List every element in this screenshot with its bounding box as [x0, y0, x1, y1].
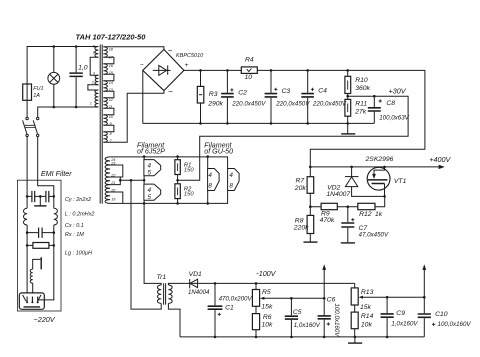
svg-text:C2: C2: [238, 90, 247, 97]
svg-text:C8: C8: [386, 100, 395, 107]
svg-text:R8: R8: [295, 217, 304, 224]
svg-text:R6: R6: [263, 314, 272, 321]
capacitor C5: [285, 316, 298, 319]
svg-text:22: 22: [110, 174, 116, 178]
arrow bias output 1: [322, 264, 326, 270]
resistor R10: [345, 76, 351, 93]
wire -100V bottom return rail: [180, 336, 424, 338]
resistor R7: [307, 177, 314, 194]
svg-text:100,0x160V: 100,0x160V: [438, 321, 472, 328]
svg-text:4: 4: [148, 162, 152, 169]
junction dots filament midpoint wire: [119, 179, 122, 182]
arrow +400V: [439, 165, 445, 169]
resistor R11: [345, 99, 351, 116]
svg-text:VD1: VD1: [189, 271, 202, 278]
svg-text:21: 21: [110, 181, 115, 185]
resistor Rx: [33, 243, 49, 249]
diode VD1 1N4004: [190, 279, 198, 287]
svg-text:2: 2: [91, 81, 95, 85]
bridge rectifier VD KBPC5010: [143, 49, 184, 90]
svg-text:12: 12: [109, 98, 114, 102]
wire pin 18 to bridge ~ top: [103, 47, 163, 50]
svg-text:+: +: [185, 62, 189, 69]
svg-text:100,0x160V: 100,0x160V: [333, 303, 340, 337]
svg-text:1: 1: [90, 101, 92, 105]
fuse FU1: [23, 84, 32, 100]
svg-text:2SK2996: 2SK2996: [365, 156, 394, 163]
svg-text:+400V: +400V: [429, 155, 451, 164]
wire transformer pin 1 to switch pole 2: [38, 107, 99, 117]
svg-text:EMI Filter: EMI Filter: [41, 169, 72, 178]
diode VD2 1N4007: [345, 176, 359, 178]
capacitor Cx: [39, 228, 43, 238]
wire +400V line: [310, 166, 439, 168]
resistor R9: [321, 203, 337, 209]
wire EMI left line: [26, 191, 28, 293]
svg-text:R12: R12: [359, 211, 372, 218]
svg-text:47,0x450V: 47,0x450V: [359, 232, 389, 239]
wire fuse to switch pole 1: [26, 100, 28, 117]
svg-text:C9: C9: [396, 310, 405, 317]
wire main top rail from bridge plus: [184, 70, 425, 166]
svg-text:1N4004: 1N4004: [188, 289, 210, 296]
inductor Lg with terminal: [33, 259, 41, 269]
svg-text:1N4007: 1N4007: [326, 191, 350, 198]
svg-text:1A: 1A: [33, 93, 40, 99]
resistor R6: [252, 314, 259, 330]
svg-text:18: 18: [109, 48, 114, 52]
svg-text:R10: R10: [355, 77, 368, 84]
svg-text:15k: 15k: [360, 304, 372, 311]
svg-text:470,0x200V: 470,0x200V: [219, 296, 253, 303]
ground chassis at C7 bottom: [341, 242, 355, 244]
svg-text:Cy : 2n2x2: Cy : 2n2x2: [65, 197, 91, 203]
svg-text:C4: C4: [318, 88, 327, 95]
svg-text:8: 8: [208, 182, 212, 189]
svg-text:R11: R11: [355, 101, 367, 108]
wire EMI right line: [39, 191, 54, 300]
svg-text:5: 5: [148, 194, 152, 201]
transformer T1 primary winding 6-5: [95, 47, 99, 58]
wire filament bottom rail to Tr1 primary top: [144, 203, 161, 285]
svg-text:220k: 220k: [293, 225, 309, 232]
trimmer arrow into R5: [260, 297, 265, 300]
svg-text:14: 14: [109, 81, 113, 85]
junction dots +400V line: [309, 166, 312, 169]
wire +30V net loop to filament midpoint: [178, 96, 409, 180]
trimmer arrow into R13: [359, 296, 364, 299]
wire C10 line with output arrow: [423, 269, 425, 337]
resistor R12: [358, 203, 375, 209]
resistor R2: [175, 184, 180, 199]
svg-text:~: ~: [168, 47, 173, 56]
transformer T1 core: [100, 45, 102, 204]
transformer Tr1 primary winding: [157, 285, 161, 303]
svg-text:10k: 10k: [262, 322, 274, 329]
ground chassis at R11 bottom: [347, 123, 349, 133]
svg-text:Tr1: Tr1: [157, 274, 167, 281]
transformer T1 secondary jumpers 17-16 15-14 13-12 11-10 9-8: [103, 57, 114, 64]
junction dots HV top rail: [199, 69, 202, 72]
svg-text:1,0x160V: 1,0x160V: [294, 322, 321, 329]
svg-text:8: 8: [110, 132, 113, 136]
capacitor C1: [208, 306, 223, 309]
wire pin 7 to bridge ~ bottom: [103, 91, 163, 143]
polarity plus C4: [311, 88, 314, 91]
svg-text:15k: 15k: [261, 304, 273, 311]
junction dots HV bottom rail: [199, 122, 202, 125]
svg-text:220,0x450V: 220,0x450V: [312, 100, 347, 107]
svg-text:19: 19: [111, 197, 116, 201]
polarity plus C3: [274, 88, 277, 91]
resistor R13: [351, 288, 358, 305]
svg-text:220,0x450V: 220,0x450V: [275, 100, 310, 107]
svg-text:~: ~: [168, 88, 173, 97]
switch SA1 lever bars: [23, 120, 38, 133]
svg-text:of GU-50: of GU-50: [204, 147, 233, 155]
resistor R4: [241, 67, 257, 74]
junction dots gate rail and source node: [309, 205, 312, 208]
svg-text:220.0x450V: 220.0x450V: [231, 100, 266, 107]
transformer T1 primary winding 2-1: [95, 90, 99, 107]
junction dots bottom return rail: [214, 336, 217, 339]
junction dots +30V net: [346, 95, 349, 98]
svg-text:27k: 27k: [354, 108, 367, 115]
transformer T1 HV secondary windings 18..7: [103, 47, 107, 58]
svg-text:16: 16: [109, 64, 114, 68]
wire lamp stems: [53, 47, 55, 108]
resistor R8: [307, 215, 314, 233]
transformer T1 filament winding 24-19: [105, 157, 110, 165]
transformer T1 primary winding 3-2: [95, 75, 98, 84]
svg-text:C5: C5: [293, 309, 302, 316]
svg-text:5: 5: [148, 169, 152, 176]
heater 6J52P socket 2: [144, 184, 161, 200]
svg-text:8: 8: [229, 182, 233, 189]
svg-text:20: 20: [110, 188, 116, 192]
ground chassis at return rail: [354, 337, 356, 343]
svg-text:−: −: [140, 62, 144, 69]
svg-text:1,0x160V: 1,0x160V: [391, 321, 418, 328]
svg-text:100,0x63V: 100,0x63V: [379, 115, 409, 122]
svg-text:R3: R3: [209, 91, 218, 98]
wire cap 1,0 stems: [75, 47, 77, 108]
capacitor C10: [418, 314, 431, 317]
lamp HL1: [48, 72, 60, 84]
polarity plus C2: [230, 88, 233, 91]
svg-text:4: 4: [208, 172, 212, 179]
svg-text:~220V: ~220V: [34, 315, 56, 324]
svg-text:Rx : 1M: Rx : 1M: [65, 232, 84, 238]
svg-text:R13: R13: [361, 289, 374, 296]
wire -100V rail: [190, 282, 355, 284]
svg-text:150: 150: [184, 167, 194, 173]
capacitor 1,0: [69, 73, 82, 76]
resistor R3: [197, 86, 204, 103]
EMI filter box: [18, 180, 62, 311]
capacitor Cy pair: [32, 191, 49, 202]
svg-text:23: 23: [110, 162, 116, 166]
svg-text:4: 4: [229, 172, 233, 179]
transformer Tr1 core: [164, 283, 166, 304]
ground chassis at Cy midpoint: [39, 196, 41, 206]
svg-text:VT1: VT1: [394, 178, 407, 185]
wire filament bottom rail: [110, 191, 228, 204]
wire gate divider rail: [310, 196, 384, 206]
svg-text:TAH 107-127/220-50: TAH 107-127/220-50: [76, 33, 147, 42]
svg-text:C3: C3: [282, 88, 291, 95]
capacitor C9: [381, 314, 394, 317]
svg-text:10: 10: [245, 74, 253, 81]
arrow bias output 2: [422, 264, 426, 270]
polarity plus C10: [432, 323, 435, 326]
junction dots filament bottom rail: [143, 202, 146, 205]
svg-text:290k: 290k: [207, 100, 223, 107]
capacitor C3: [265, 94, 278, 97]
resistor R1: [175, 160, 180, 175]
svg-text:R14: R14: [361, 313, 374, 320]
connector X1 mains inlet: [19, 293, 44, 309]
inductor L common mode choke: [23, 208, 27, 225]
polarity plus C1: [218, 313, 221, 316]
svg-text:470k: 470k: [320, 217, 335, 224]
wire filament tap 22-21 to heater midpoint: [120, 179, 144, 181]
heater 6J52P socket 1: [144, 160, 161, 176]
svg-text:20k: 20k: [294, 185, 307, 192]
svg-text:150: 150: [184, 191, 194, 197]
capacitor C4: [301, 94, 314, 97]
svg-text:R5: R5: [262, 289, 271, 296]
svg-text:10k: 10k: [361, 322, 373, 329]
wire R5 wiper to C6 line: [264, 297, 324, 299]
svg-text:1k: 1k: [375, 211, 383, 218]
capacitor C6: [318, 316, 331, 319]
svg-text:1,0: 1,0: [78, 64, 88, 71]
switch SA1 coupling dashes: [25, 125, 35, 127]
capacitor C8: [368, 108, 381, 111]
MOSFET VT1 2SK2996: [367, 167, 390, 190]
transformer T1 primary jumper 5-3: [90, 57, 98, 75]
transformer Tr1 secondary winding: [168, 285, 172, 303]
svg-text:C1: C1: [225, 305, 234, 312]
resistor R5: [252, 290, 259, 307]
junction dots filament top rail: [143, 155, 146, 158]
transformer T1 filament stubs and jumpers: [110, 165, 123, 177]
wire heater tap to Tr1 primary bottom: [131, 180, 161, 309]
svg-text:of 6J52P: of 6J52P: [137, 147, 165, 155]
svg-text:11: 11: [109, 105, 113, 109]
svg-text:360k: 360k: [355, 85, 370, 92]
junction dots EMI filter: [26, 195, 29, 198]
wire C6 line with output arrow: [323, 269, 325, 337]
wire GU-50 socket stubs: [207, 157, 209, 204]
polarity plus C7: [351, 218, 354, 221]
capacitor C2: [221, 94, 234, 97]
wire HV bottom rail: [143, 122, 374, 124]
svg-text:-100V: -100V: [256, 269, 276, 278]
svg-text:+30V: +30V: [389, 86, 407, 95]
wire switch to EMI filter: [26, 137, 28, 191]
svg-text:10: 10: [109, 115, 114, 119]
junction dots mains top: [53, 45, 56, 48]
heater GU-50 socket 1: [208, 169, 220, 191]
capacitor C7: [341, 223, 354, 227]
polarity plus C8: [379, 99, 382, 102]
svg-text:C6: C6: [327, 296, 336, 303]
wire R13 wiper to C10 line: [362, 296, 424, 298]
svg-text:3: 3: [93, 71, 96, 75]
transformer T1 primary jumper 2-w3: [88, 85, 99, 90]
wire heater column: [143, 157, 145, 204]
svg-text:R7: R7: [296, 178, 305, 185]
wire mains top from fuse corner to transformer pin 6: [27, 47, 98, 85]
heater GU-50 socket 2: [228, 169, 240, 191]
switch SA1 contacts: [26, 117, 28, 119]
resistor R14: [351, 312, 358, 329]
svg-text:FU1: FU1: [33, 86, 43, 92]
ground chassis at R8 bottom: [304, 241, 318, 243]
junction dots -100V rail: [214, 282, 217, 285]
svg-text:Cx : 0.1: Cx : 0.1: [65, 223, 84, 229]
svg-text:C10: C10: [435, 311, 448, 318]
svg-text:KBPC5010: KBPC5010: [176, 53, 204, 59]
svg-text:L : 0.2mHx2: L : 0.2mHx2: [65, 212, 95, 218]
polarity plus C6: [327, 322, 330, 325]
wire Tr1 secondary top to VD1: [168, 283, 189, 285]
wire filament top rail: [110, 157, 228, 169]
svg-text:R4: R4: [245, 57, 254, 64]
junction dots wiper wires: [290, 297, 293, 300]
wire Tr1 secondary bottom to -100V return rail: [168, 303, 180, 337]
svg-text:Lg : 100µH: Lg : 100µH: [65, 251, 92, 257]
wire bridge minus to HV bottom rail: [142, 70, 144, 123]
